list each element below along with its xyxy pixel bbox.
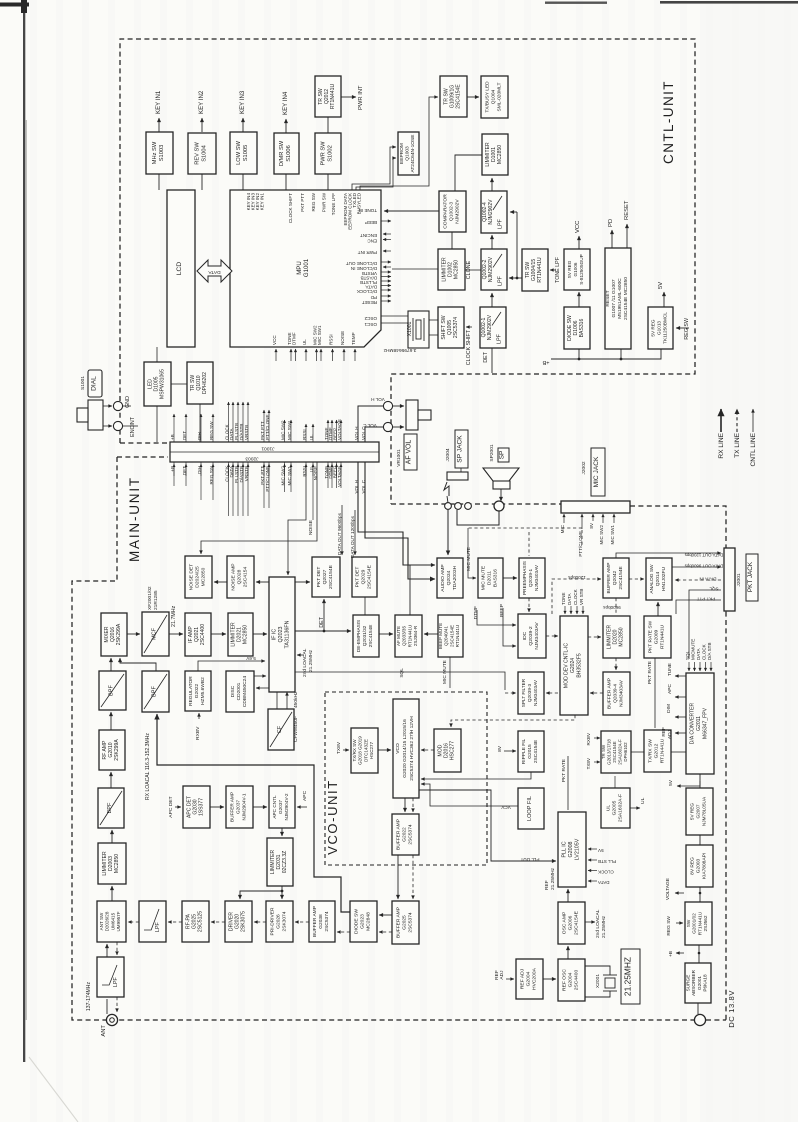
VCO-UNIT dashed border xyxy=(325,692,487,865)
svg-text:UL: UL xyxy=(302,339,307,345)
svg-text:1200bps: 1200bps xyxy=(568,575,586,580)
wire IDC dashed to MOD DEV xyxy=(546,635,558,637)
svg-text:KIA7808API: KIA7808API xyxy=(702,853,708,879)
wire IF IC audio out to DE-EMPHASIS xyxy=(295,630,351,632)
svg-text:SQL: SQL xyxy=(685,650,690,660)
svg-text:TX/BUSY LED: TX/BUSY LED xyxy=(484,81,490,113)
CNTL-UNIT dashed border xyxy=(120,39,695,504)
node junction power 2 xyxy=(698,952,701,955)
svg-text:X1001: X1001 xyxy=(407,321,413,336)
driver Q2020 2SK3075 xyxy=(225,901,252,942)
svg-text:SP: SP xyxy=(499,450,506,459)
wire TX8V into TX/RX SW xyxy=(343,749,349,751)
connector top pin stub PKT PTT xyxy=(263,410,265,442)
svg-text:D1005: D1005 xyxy=(154,376,160,391)
connector bottom pin arrow PTT/CLONE xyxy=(268,464,270,476)
wire UL top stub xyxy=(614,776,616,788)
svg-text:D/MR SW: D/MR SW xyxy=(279,140,285,166)
wire junction to Q1002-4 right xyxy=(510,211,517,213)
wire Q1002-1 to Q1002-2 xyxy=(491,293,493,307)
svg-text:DTMF: DTMF xyxy=(473,606,479,619)
mpu bottom pin stub RSSI xyxy=(332,349,334,361)
svg-text:G2018 G2019: G2018 G2019 xyxy=(358,736,363,765)
svg-text:ENCINT: ENCINT xyxy=(360,233,377,238)
wire 2nd local into IF IC xyxy=(297,654,304,656)
wire MOD DEV dashed to LIMITER D2020 xyxy=(588,636,601,638)
svg-text:TONE IN: TONE IN xyxy=(359,208,377,213)
diode DIODE SW D1006 BAS316 xyxy=(564,307,590,349)
d/a converter Q2011 M62347 xyxy=(686,673,714,774)
svg-text:OSC2: OSC2 xyxy=(364,316,377,321)
apc control Q2037 NJM2904V-2 xyxy=(269,786,295,828)
svg-text:G1007 /11 G1007: G1007 /11 G1007 xyxy=(611,279,617,317)
svg-text:DRIVER: DRIVER xyxy=(228,912,234,932)
svg-text:G2037: G2037 xyxy=(236,800,241,814)
pll ic Q2008 LV2105V xyxy=(558,812,586,887)
mpu pin stub D/CLONE IN xyxy=(383,266,391,268)
wire 8V REG to SW xyxy=(699,887,701,902)
filter RIPPLE FIL Q2015 2SC4154E xyxy=(518,731,544,772)
svg-text:SQL: SQL xyxy=(399,668,405,678)
svg-text:LPF: LPF xyxy=(498,275,504,286)
if ic Q2023 TA31136FN xyxy=(269,577,295,692)
wire D2031 to DRIVER xyxy=(240,891,282,899)
wire IF IC to CF a xyxy=(276,692,278,709)
wire ANT SW to LIMMITER D2003 xyxy=(111,886,113,901)
svg-text:TX8V: TX8V xyxy=(586,757,591,769)
wire LED D1005 to TR SW Q1010 xyxy=(171,383,187,385)
modulator MOD D2016 HSC277 xyxy=(434,729,461,772)
svg-text:BUFFER AMP: BUFFER AMP xyxy=(395,819,401,850)
stub +B to RESET xyxy=(620,349,622,359)
svg-text:SPLT FILTER: SPLT FILTER xyxy=(521,678,526,707)
wire TR SW Q2012 to PWR SW xyxy=(327,117,329,133)
svg-text:Q2027: Q2027 xyxy=(322,569,328,584)
svg-text:2SC4154E: 2SC4154E xyxy=(367,564,373,589)
svg-text:RX LINE: RX LINE xyxy=(718,432,725,458)
svg-text:G2001: G2001 xyxy=(697,976,702,990)
wire TR SW Q1010 down to connector xyxy=(199,404,201,442)
mpu pin stub D/CLONE OUT xyxy=(381,261,391,263)
svg-text:VRSTB: VRSTB xyxy=(362,271,377,276)
wire LIMMITER D1002 to Q1002-2 xyxy=(465,269,481,271)
connector top pin stub CLOCK xyxy=(228,402,230,442)
svg-text:J2002: J2002 xyxy=(581,461,587,474)
svg-text:RF AMP: RF AMP xyxy=(102,740,108,760)
svg-text:RT1N441U: RT1N441U xyxy=(660,624,666,649)
switch LOW SW S1005 xyxy=(230,132,257,174)
wire NOISE AMP to NOISE DET xyxy=(214,581,227,583)
wire PWR INT arrow from TR SW xyxy=(341,96,356,98)
limiter D1001 MC2850 xyxy=(482,134,508,175)
svg-text:D2031: D2031 xyxy=(276,854,282,869)
mpu bottom pin stub TONE xyxy=(290,349,292,361)
svg-text:DISC: DISC xyxy=(230,685,236,697)
svg-text:2SK299A: 2SK299A xyxy=(116,623,122,645)
svg-text:RT1N441U: RT1N441U xyxy=(330,84,336,110)
label box AF VOL xyxy=(396,434,417,470)
svg-text:DATA IN: DATA IN xyxy=(699,577,716,582)
MAIN-UNIT dashed border xyxy=(72,457,726,1020)
svg-text:PWR SW: PWR SW xyxy=(322,192,327,212)
svg-text:1SS377: 1SS377 xyxy=(199,798,205,816)
vco Q2020 Q2014/15 L2015/16 xyxy=(393,699,419,798)
wire TX/RX SW Q2012 to D/A xyxy=(671,751,686,753)
svg-text:X2001: X2001 xyxy=(595,974,601,989)
svg-text:MIC SW1: MIC SW1 xyxy=(610,525,615,545)
wire 5V into PLL xyxy=(588,848,597,850)
mute AF MUTE Q2033/35 xyxy=(395,615,422,657)
wire SQL into D/A xyxy=(688,662,690,671)
wire Q1002-1 DET down xyxy=(491,348,493,373)
wire 5V stub from D/A xyxy=(677,781,700,786)
wire PTT/CLONE dashed to MIC MUTE xyxy=(468,527,582,529)
ref adjust Q2004 HVC200A xyxy=(516,959,543,999)
mpu pin stub D/ASTB xyxy=(381,276,391,278)
svg-text:2SC4154E: 2SC4154E xyxy=(618,566,624,590)
mod dev cntl ic Q2024 BH3532F5 xyxy=(560,616,588,715)
wire BPF2 to MIXER xyxy=(120,658,156,671)
page scan top edge marks xyxy=(545,2,607,4)
page scan bottom-left diagonal xyxy=(29,1057,78,1122)
transistor TR SW G1004/15 RT1N441U xyxy=(522,249,548,291)
wire TUNE from D/A xyxy=(675,675,686,677)
wire DATA into MOD DEV xyxy=(570,606,572,614)
wire rx local DIODE SW to BPF2 xyxy=(157,714,350,912)
svg-text:KEY IN1: KEY IN1 xyxy=(260,193,265,211)
svg-text:LOW SW: LOW SW xyxy=(236,141,242,165)
svg-text:IDC: IDC xyxy=(522,631,528,640)
svg-text:HN1J02FU: HN1J02FU xyxy=(661,567,667,591)
amplifier OSC AMP Q2006 2SC4154E xyxy=(558,902,585,944)
svg-text:VCC: VCC xyxy=(575,221,581,233)
svg-text:IF IC: IF IC xyxy=(272,629,278,641)
wire COMPARATOR to LIMMITER D1002 xyxy=(451,232,453,249)
wire VOL C down to audio xyxy=(365,462,435,579)
svg-text:MCF: MCF xyxy=(152,627,158,640)
wire CLOCK into PLL xyxy=(588,870,597,872)
wire REF ADJ label arrow xyxy=(506,978,514,980)
mpu bottom pin stub MIC SW1 xyxy=(320,349,322,361)
svg-text:SHIFT SW: SHIFT SW xyxy=(441,315,447,339)
transistor TR SW G1009/1G 2SC4154E xyxy=(440,76,467,117)
node sp contact 2 xyxy=(455,503,462,510)
wire 5V REG Q2007 to 8V REG xyxy=(699,835,701,845)
wire BPF3 to RF AMP xyxy=(110,772,112,788)
wire VCO dashed to BUFFER Q2022 xyxy=(412,798,414,812)
wire OSC AMP 2nd local out xyxy=(585,921,595,923)
wire +B stub xyxy=(676,952,684,954)
svg-text:2SJ562: 2SJ562 xyxy=(703,915,708,931)
svg-text:Q1005: Q1005 xyxy=(447,320,453,335)
svg-text:BUFFER AMP: BUFFER AMP xyxy=(606,563,612,594)
svg-text:DIODE SW: DIODE SW xyxy=(567,315,573,341)
svg-text:LIMMITER: LIMMITER xyxy=(230,622,236,647)
eeprom Q1003 AT24C64N-10SE xyxy=(398,132,419,175)
svg-text:REF ADJ: REF ADJ xyxy=(519,968,525,989)
op-amp Q1002-1 NJM2902V with LPF xyxy=(480,307,506,348)
svg-text:LIMMITER: LIMMITER xyxy=(606,625,612,650)
svg-text:S1001: S1001 xyxy=(80,376,86,390)
connector bottom pin stub DET xyxy=(185,462,187,486)
node VOL H contact xyxy=(383,401,392,410)
wire IF IC to PKT DET Q2027 xyxy=(295,581,310,583)
svg-text:G2038: G2038 xyxy=(318,914,324,929)
svg-text:2SC5374: 2SC5374 xyxy=(408,912,414,932)
dc power connector DC 13.8V xyxy=(694,1014,705,1025)
mpu pin stub ENCINT xyxy=(383,233,391,235)
svg-text:D2003: D2003 xyxy=(108,856,114,871)
svg-text:NOISE: NOISE xyxy=(340,331,345,345)
wire key arrow KEY IN1 xyxy=(158,118,160,132)
svg-text:VCO: VCO xyxy=(395,743,401,754)
wire key arrow KEY IN4 xyxy=(285,119,287,133)
svg-text:DC 13.8V: DC 13.8V xyxy=(727,990,736,1028)
svg-text:S1004: S1004 xyxy=(202,145,208,162)
svg-text:2SK3075: 2SK3075 xyxy=(241,911,247,932)
svg-text:Q1002-3: Q1002-3 xyxy=(449,202,455,221)
svg-text:PLL STB: PLL STB xyxy=(598,859,616,864)
svg-text:HVC200A: HVC200A xyxy=(532,967,538,990)
svg-text:21R1285: 21R1285 xyxy=(153,590,159,610)
svg-text:5V REG: 5V REG xyxy=(689,803,694,821)
wire LIMMITER D2031 split xyxy=(281,886,283,891)
svg-text:2SA1602A-F: 2SA1602A-F xyxy=(618,739,623,765)
svg-text:TR SW: TR SW xyxy=(318,88,324,105)
svg-text:D2021: D2021 xyxy=(237,627,243,642)
led D1005 MSPW31065 xyxy=(144,362,171,406)
svg-text:PKT DET: PKT DET xyxy=(316,567,322,588)
wire BUFFER Q2039-4 dashed to MOD DEV xyxy=(590,692,603,694)
svg-text:REF OSC: REF OSC xyxy=(561,969,567,991)
legend TX LINE arrow xyxy=(736,409,738,432)
svg-text:D/A STB: D/A STB xyxy=(707,643,712,661)
limiter D2021 MC3850 xyxy=(228,613,253,656)
svg-text:2SK299A: 2SK299A xyxy=(114,739,120,761)
ul switch Q2005 2SA1602A-F xyxy=(601,788,630,828)
wire SP JACK label to symbol xyxy=(460,468,462,472)
svg-text:CNTL-UNIT: CNTL-UNIT xyxy=(661,80,676,164)
svg-text:TX/RX SW: TX/RX SW xyxy=(647,739,653,763)
wire 8V into RIPPLE FIL xyxy=(504,750,516,752)
svg-text:APC DET: APC DET xyxy=(168,796,174,817)
wire DATA OUT 9600 to PKT DET xyxy=(341,505,343,555)
svg-text:D2024/25: D2024/25 xyxy=(195,566,201,588)
wire crystal to MPU OSC1 xyxy=(381,315,408,317)
svg-text:MIC JACK: MIC JACK xyxy=(593,456,600,487)
svg-text:BEEP: BEEP xyxy=(499,604,505,617)
svg-text:HZM5.6WB2: HZM5.6WB2 xyxy=(200,677,206,705)
svg-text:DIODE SW: DIODE SW xyxy=(353,909,359,934)
wire BUFFER Q2038 dashed to PRI-DRIVER xyxy=(295,921,309,923)
svg-text:G2015: G2015 xyxy=(527,744,533,759)
mpu pin stub RESET xyxy=(381,300,391,302)
connector top pin stub TONE xyxy=(327,420,329,442)
svg-text:DPH6202: DPH6202 xyxy=(202,372,208,394)
svg-text:2nd LOACAL: 2nd LOACAL xyxy=(595,909,601,938)
svg-text:2SC4154E MC2850: 2SC4154E MC2850 xyxy=(623,277,629,320)
svg-text:D1002: D1002 xyxy=(448,262,454,277)
transistor TR SW Q1010 DPH6202 xyxy=(187,362,213,404)
idc Q2039-2 NJM3403AV xyxy=(518,614,546,658)
wire PKT RATE SW down xyxy=(654,658,656,728)
wire crystal to MPU OSC2 xyxy=(381,322,408,324)
svg-text:G2008: G2008 xyxy=(568,841,574,857)
svg-text:Q2040/41: Q2040/41 xyxy=(444,626,449,647)
svg-text:RSSI: RSSI xyxy=(329,334,334,345)
bus +B cntl xyxy=(551,349,661,359)
svg-text:SV REG: SV REG xyxy=(567,260,572,278)
wire dashed BUFFER Q2022 to Q2025 xyxy=(412,855,414,899)
wire DIM from D/A xyxy=(675,716,686,718)
wire ANT to LPF tx dashed xyxy=(116,997,118,1012)
svg-text:Q2042: Q2042 xyxy=(612,570,618,585)
mpu bottom pin stub DTMF xyxy=(295,349,297,361)
svg-text:5V REG: 5V REG xyxy=(650,319,655,337)
svg-text:G2020 G2014/15 L2015/16: G2020 G2014/15 L2015/16 xyxy=(402,719,408,778)
svg-text:Q1004: Q1004 xyxy=(491,89,497,104)
svg-text:LIMMITER: LIMMITER xyxy=(485,142,491,167)
connector bottom pin arrow PKT PTT xyxy=(263,464,265,476)
svg-text:Q1010: Q1010 xyxy=(196,375,202,390)
svg-text:LIMMITER: LIMMITER xyxy=(102,851,108,876)
svg-text:CDBM450C24: CDBM450C24 xyxy=(242,676,248,707)
connector top pin stub PLLSTB xyxy=(237,402,239,442)
svg-text:SP JACK: SP JACK xyxy=(457,435,464,463)
switch TX/RX SW Q2012 RT1N441U xyxy=(644,730,671,772)
wire REGULATOR to IF IC xyxy=(198,661,265,671)
svg-text:SW: SW xyxy=(686,919,691,927)
wire MPU to EEPROM clock xyxy=(356,158,396,190)
antenna switch D2026/28 UM6415 xyxy=(97,901,126,942)
svg-text:2SC5374 HVC362 27lH 12VH: 2SC5374 HVC362 27lH 12VH xyxy=(409,716,415,781)
mpu bottom pin stub MIC SW2 xyxy=(316,349,318,361)
svg-text:G2005: G2005 xyxy=(612,800,618,815)
svg-text:VOL H: VOL H xyxy=(371,397,385,402)
detector PKT DET Q2027 2SC4154E xyxy=(312,557,340,597)
wire MOD DEV dashed to MOD xyxy=(451,715,575,727)
wire TONE into MOD DEV xyxy=(564,606,566,614)
connector bottom pin arrow VOLTAGE xyxy=(340,464,342,476)
connector top pin stub DTMF xyxy=(331,420,333,442)
svg-text:2SC5374: 2SC5374 xyxy=(408,824,414,844)
svg-text:XF2001/02: XF2001/02 xyxy=(147,586,153,610)
wire TR SW G1004 to Q1002-2 right xyxy=(509,277,522,279)
svg-text:PKT PTT: PKT PTT xyxy=(696,597,715,602)
svg-text:G2013/17/18: G2013/17/18 xyxy=(607,739,612,765)
svg-text:COMPARATOR: COMPARATOR xyxy=(442,194,448,229)
wire 1200bps dashed from IDC xyxy=(552,579,601,614)
amplifier BUFFER AMP Q2037 NJM2904V-1 xyxy=(226,786,253,828)
wire RF AMP to BPF1 xyxy=(110,712,112,730)
svg-text:NJM3403AV: NJM3403AV xyxy=(534,622,540,650)
wire ANT SW to LPF tx dashed xyxy=(116,942,118,955)
svg-text:MOD: MOD xyxy=(437,744,443,756)
svg-text:CLOCK SHIFT: CLOCK SHIFT xyxy=(288,193,293,223)
svg-text:NJM2902V: NJM2902V xyxy=(487,314,493,340)
svg-text:G2007: G2007 xyxy=(696,804,701,818)
svg-text:BPF: BPF xyxy=(109,684,115,695)
svg-text:PRI-DRIVER: PRI-DRIVER xyxy=(269,907,275,935)
mute BEEP MUTE Q2040/41 xyxy=(438,615,463,657)
svg-text:NJM2902V: NJM2902V xyxy=(488,199,494,225)
svg-text:G1004/15: G1004/15 xyxy=(531,259,537,281)
wire MPU TXLED to TR SW G1009 xyxy=(360,97,438,190)
wire TONE LPF into TR SW G1004 xyxy=(550,269,556,271)
switch PWR SW S1002 xyxy=(315,133,341,174)
svg-text:SQL: SQL xyxy=(709,587,719,592)
transistor TR SW Q2012 RT1N441U (cntl) xyxy=(315,76,341,117)
svg-text:D/CLONE IN: D/CLONE IN xyxy=(351,266,377,271)
connector bottom pin arrow RSSI xyxy=(305,464,307,476)
svg-text:MIXER: MIXER xyxy=(104,626,110,642)
mpu bottom pin stub UL xyxy=(305,349,307,361)
wire PLL STB into PLL xyxy=(588,859,597,861)
filter BPF 1 xyxy=(99,671,126,710)
preemphasis Q2039-1 NJM3403AV xyxy=(519,558,545,598)
svg-text:RIPPLE FIL: RIPPLE FIL xyxy=(521,738,527,764)
svg-text:KEY IN2: KEY IN2 xyxy=(198,90,205,114)
legend RX LINE arrow xyxy=(720,409,722,432)
op-amp Q1002-2 NJM2902V with LPF xyxy=(481,249,507,290)
svg-text:8V: 8V xyxy=(497,745,503,752)
svg-text:APC: APC xyxy=(667,683,673,693)
wire connector to VOL C node xyxy=(365,427,383,442)
connector bottom pin arrow +B xyxy=(173,464,175,476)
svg-text:PKT RATE: PKT RATE xyxy=(561,758,567,782)
svg-text:Q2039-3: Q2039-3 xyxy=(527,683,532,702)
svg-text:NJM2904V-2: NJM2904V-2 xyxy=(284,793,289,820)
connector bottom pin arrow DET xyxy=(185,464,187,476)
svg-text:ENCINT: ENCINT xyxy=(130,416,136,437)
svg-text:G1006: G1006 xyxy=(573,262,578,276)
switch SHIFT SW Q1005 2SC5374 xyxy=(438,307,464,348)
svg-text:D1006: D1006 xyxy=(573,320,579,335)
mpu bottom pin stub TEMP xyxy=(354,349,356,361)
connector top pin stub VRSTB xyxy=(247,402,249,442)
svg-text:RT1N441U: RT1N441U xyxy=(697,911,702,935)
svg-text:D/ASTB: D/ASTB xyxy=(361,276,377,281)
connector top pin stub +B xyxy=(173,414,175,442)
svg-text:PKT RATE: PKT RATE xyxy=(647,660,653,684)
svg-text:SML-020MLT: SML-020MLT xyxy=(497,83,503,112)
wire PREEMPHASIS dashed up xyxy=(528,532,530,556)
svg-text:G2025: G2025 xyxy=(402,915,408,930)
connector bottom pin stub VRSTB xyxy=(247,462,249,516)
wire LIMMITER D2021 to IF IC xyxy=(253,633,267,635)
wire speaker to big node xyxy=(500,489,502,501)
label box MIC JACK J2002 xyxy=(581,448,605,496)
svg-text:2SC4400: 2SC4400 xyxy=(574,969,580,990)
switch PKT RATE SW Q2009 RT1N441U xyxy=(644,616,671,658)
wire crystal to SHIFT SW a xyxy=(429,319,438,321)
svg-text:VOLTAGE: VOLTAGE xyxy=(665,877,671,900)
svg-text:+B: +B xyxy=(668,951,674,957)
svg-text:G2011: G2011 xyxy=(696,716,702,731)
mpu bottom pin stub VCC xyxy=(275,349,277,361)
antenna connector ANT xyxy=(106,1014,117,1025)
filter LPF antenna xyxy=(97,957,124,997)
amplifier BUFFER AMP Q2042 2SC4154E xyxy=(603,558,629,598)
svg-text:BH3532F5: BH3532F5 xyxy=(577,653,583,677)
connector top pin stub REG SW xyxy=(212,414,214,442)
svg-text:RESET: RESET xyxy=(362,300,377,305)
mic jack pin stub 8V xyxy=(592,514,594,521)
svg-text:ANT SW: ANT SW xyxy=(99,912,104,930)
svg-text:REF: REF xyxy=(544,880,550,890)
svg-text:LCD: LCD xyxy=(176,262,183,275)
wire MOD DEV dashed to SPLT FILTER xyxy=(546,692,558,694)
